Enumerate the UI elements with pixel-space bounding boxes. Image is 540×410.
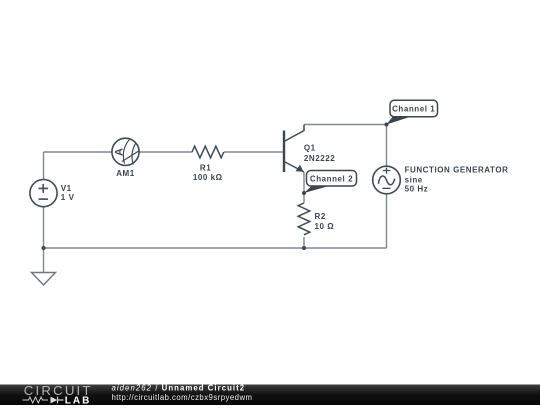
- probe Channel 2: [304, 171, 357, 194]
- wire AM1 to R1: [139, 151, 192, 153]
- wire bottom horizontal: [44, 247, 387, 249]
- svg-text:http://circuitlab.com/czbx9srp: http://circuitlab.com/czbx9srpyedwm: [112, 393, 253, 402]
- wire top-left horizontal (V1 top to AM1): [44, 151, 113, 153]
- function generator V2: [373, 166, 401, 194]
- label AM1: [116, 169, 135, 178]
- label V1 value: [61, 184, 75, 202]
- svg-text:1 V: 1 V: [61, 193, 75, 202]
- svg-text:10 Ω: 10 Ω: [315, 222, 335, 231]
- footer logo CIRCUIT: [24, 383, 93, 398]
- ammeter AM1: [112, 138, 140, 165]
- ground: [32, 273, 56, 286]
- probe Channel 1: [387, 100, 438, 124]
- ground wire stub: [43, 248, 45, 273]
- transistor Q1: [284, 125, 304, 173]
- wire left vertical lower (V1 bottom to ground node): [43, 207, 45, 248]
- svg-text:sine: sine: [405, 175, 423, 184]
- svg-text:R2: R2: [315, 212, 326, 221]
- resistor R2: [298, 203, 310, 235]
- wire collector to Channel1 node (top horizontal): [304, 124, 387, 126]
- footer title text: [112, 384, 253, 402]
- wire R2 bottom lead: [303, 237, 305, 248]
- label Q1 value: [304, 144, 335, 163]
- svg-text:aiden262 / Unnamed Circuit2: aiden262 / Unnamed Circuit2: [112, 384, 246, 393]
- svg-text:Q1: Q1: [304, 144, 316, 153]
- footer logo LAB: [65, 395, 92, 406]
- node ground junction: [42, 246, 46, 250]
- footer bar: [0, 385, 540, 406]
- node Channel1 junction: [385, 123, 389, 127]
- svg-text:FUNCTION GENERATOR: FUNCTION GENERATOR: [405, 165, 509, 174]
- label R2 value: [315, 212, 335, 231]
- node R2 bottom junction: [302, 246, 306, 250]
- svg-text:R1: R1: [200, 164, 211, 173]
- wire R1 to Q1 base: [224, 151, 283, 153]
- footer logo schematic line with resistor and diode: [23, 397, 64, 404]
- svg-text:50 Hz: 50 Hz: [405, 184, 429, 193]
- svg-text:Channel 1: Channel 1: [392, 105, 435, 114]
- resistor R1: [192, 146, 224, 158]
- voltage source V1: [30, 180, 57, 207]
- wire left vertical upper (to V1 top): [43, 152, 45, 180]
- wire emitter vertical (to R2 top): [303, 172, 305, 203]
- label function generator: [405, 165, 509, 193]
- svg-text:100 kΩ: 100 kΩ: [193, 173, 223, 182]
- svg-text:V1: V1: [61, 184, 72, 193]
- wire right vertical lower (function generator to bottom): [386, 194, 388, 248]
- node Channel2 junction: [302, 191, 306, 195]
- svg-text:2N2222: 2N2222: [304, 154, 335, 163]
- svg-text:Channel 2: Channel 2: [310, 175, 353, 184]
- wire right vertical upper (node to function generator): [386, 125, 388, 167]
- svg-text:LAB: LAB: [65, 395, 92, 405]
- label R1 value: [193, 164, 223, 182]
- svg-text:AM1: AM1: [116, 169, 135, 178]
